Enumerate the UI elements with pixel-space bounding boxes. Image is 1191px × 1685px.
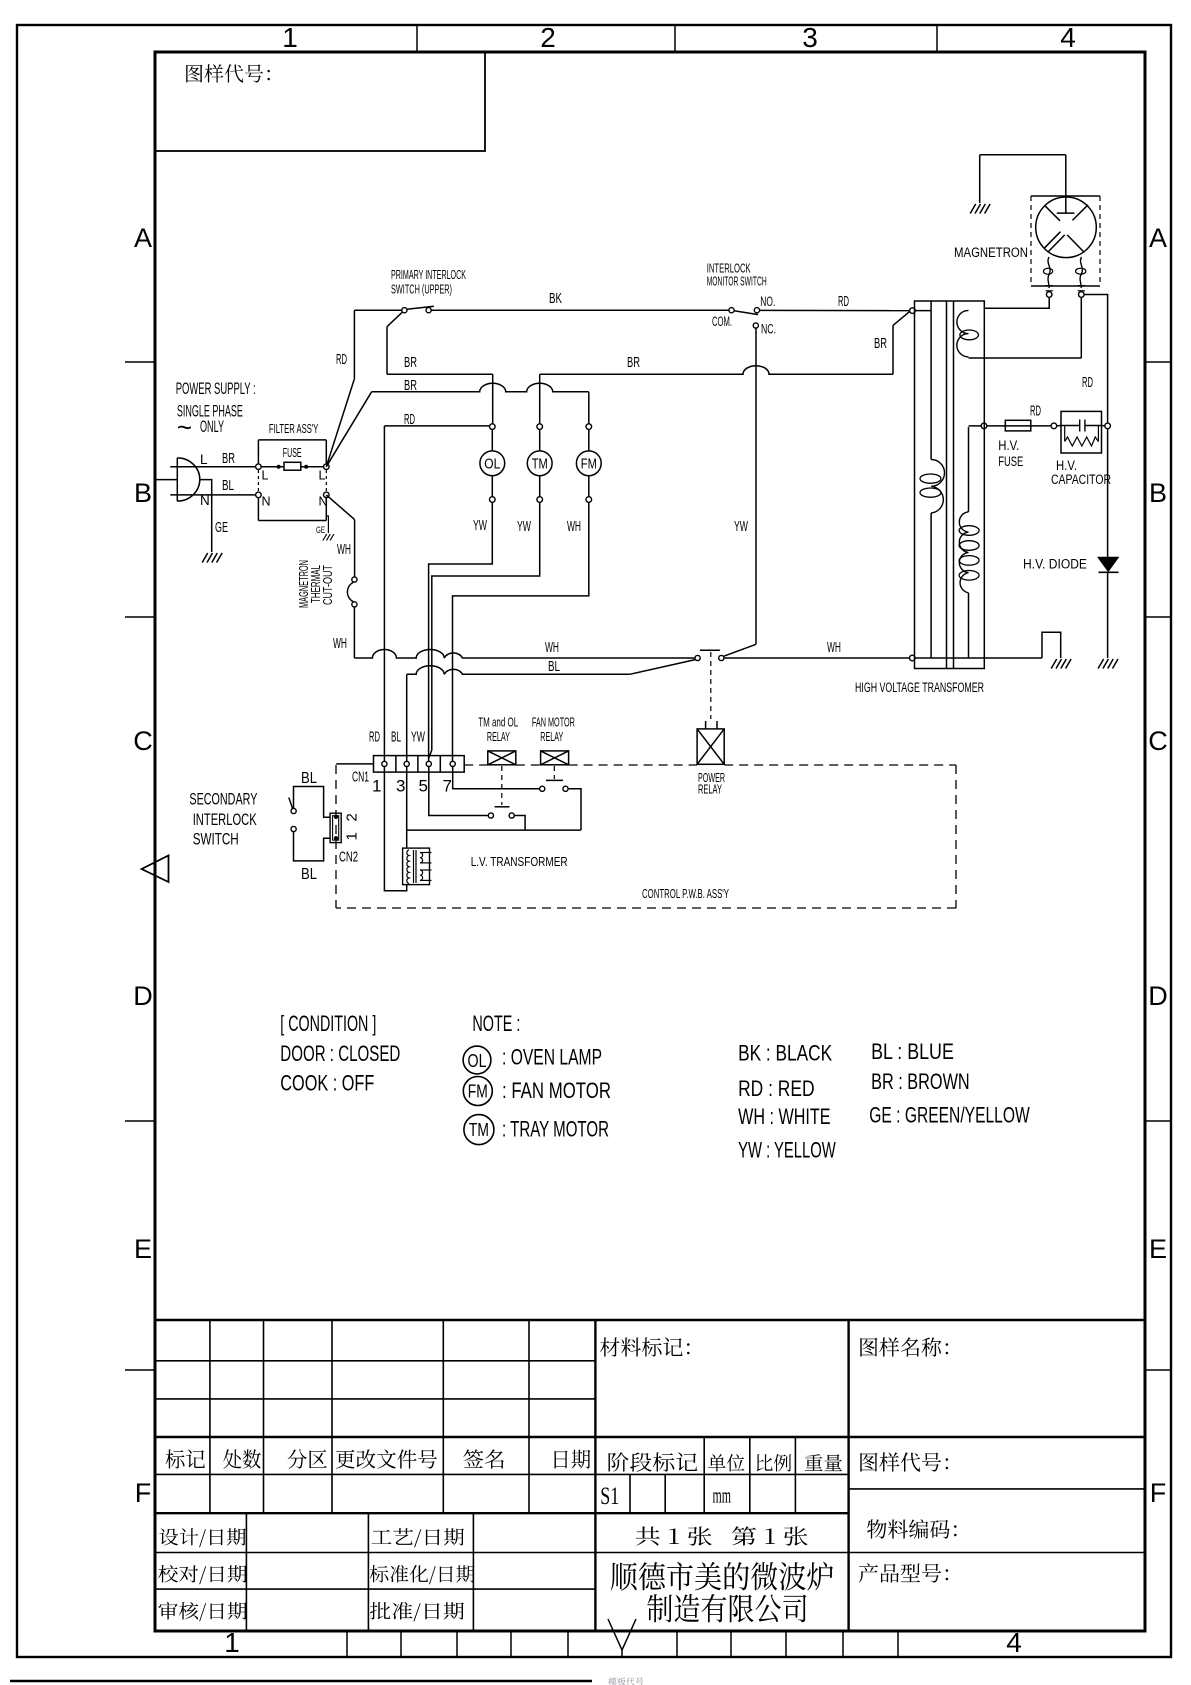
svg-text:MONITOR SWITCH: MONITOR SWITCH	[707, 274, 767, 288]
svg-text:N: N	[262, 495, 271, 509]
svg-text:WH: WH	[545, 640, 559, 656]
svg-text:mm: mm	[713, 1483, 732, 1508]
svg-text:FUSE: FUSE	[998, 454, 1023, 469]
svg-text:RD : RED: RD : RED	[738, 1076, 815, 1101]
svg-text:2: 2	[344, 813, 361, 821]
svg-text:B: B	[1149, 478, 1167, 508]
svg-text:WH: WH	[333, 636, 347, 652]
svg-text:POWER SUPPLY :: POWER SUPPLY :	[176, 379, 256, 398]
svg-text:N: N	[319, 495, 328, 509]
svg-text:SWITCH: SWITCH	[193, 831, 239, 849]
svg-text:HIGH VOLTAGE TRANSFOMER: HIGH VOLTAGE TRANSFOMER	[855, 680, 984, 695]
svg-text:PRIMARY INTERLOCK: PRIMARY INTERLOCK	[391, 268, 466, 282]
svg-text:C: C	[133, 726, 153, 756]
svg-text:7: 7	[443, 777, 452, 796]
svg-text:S1: S1	[600, 1483, 619, 1510]
svg-text:FUSE: FUSE	[283, 445, 302, 460]
svg-text:RD: RD	[404, 412, 415, 428]
svg-text:H.V.: H.V.	[998, 438, 1019, 453]
svg-text:RD: RD	[1082, 375, 1093, 391]
svg-text:3: 3	[802, 22, 818, 53]
svg-text:COOK : OFF: COOK : OFF	[280, 1071, 374, 1096]
svg-text:D: D	[1148, 981, 1168, 1011]
svg-text:MAGNETRON: MAGNETRON	[954, 245, 1028, 260]
svg-text:1: 1	[282, 22, 298, 53]
svg-text:CONTROL P.W.B. ASS'Y: CONTROL P.W.B. ASS'Y	[642, 887, 729, 901]
svg-text:C: C	[1148, 726, 1168, 756]
svg-text:YW: YW	[734, 519, 748, 535]
svg-text:YW: YW	[517, 519, 531, 535]
svg-text:BR: BR	[627, 355, 640, 371]
svg-text:BR: BR	[404, 355, 417, 371]
svg-text:ONLY: ONLY	[200, 417, 224, 436]
svg-text:FAN MOTOR: FAN MOTOR	[532, 715, 575, 729]
svg-text:TM: TM	[532, 456, 548, 472]
svg-text:FILTER ASS'Y: FILTER ASS'Y	[269, 421, 319, 436]
svg-text:BL: BL	[391, 730, 401, 746]
svg-text:L: L	[262, 469, 269, 483]
svg-text:BL: BL	[301, 770, 317, 787]
svg-text:~: ~	[177, 412, 192, 442]
svg-text:WH : WHITE: WH : WHITE	[738, 1104, 830, 1129]
svg-text:L: L	[319, 469, 326, 483]
svg-text:TM: TM	[469, 1120, 489, 1140]
svg-text:OL: OL	[484, 456, 500, 472]
svg-text:OL: OL	[468, 1051, 487, 1071]
svg-text:L.V. TRANSFORMER: L.V. TRANSFORMER	[471, 855, 568, 869]
svg-text:BK : BLACK: BK : BLACK	[738, 1041, 832, 1066]
svg-text:WH: WH	[337, 542, 351, 558]
svg-text:GE : GREEN/YELLOW: GE : GREEN/YELLOW	[869, 1102, 1030, 1127]
svg-text:WH: WH	[567, 519, 581, 535]
svg-text:F: F	[1150, 1478, 1167, 1508]
svg-text:BR: BR	[222, 451, 235, 467]
svg-text:3: 3	[396, 777, 405, 796]
svg-text:D: D	[133, 981, 153, 1011]
svg-text:BL : BLUE: BL : BLUE	[871, 1039, 954, 1064]
svg-text:5: 5	[419, 777, 428, 796]
svg-text:RD: RD	[369, 730, 380, 746]
svg-text:CN1: CN1	[352, 769, 369, 786]
svg-text:: FAN MOTOR: : FAN MOTOR	[502, 1078, 611, 1103]
svg-text:CUT-OUT: CUT-OUT	[321, 565, 335, 605]
svg-text:RD: RD	[1030, 404, 1041, 420]
svg-text:H.V. DIODE: H.V. DIODE	[1023, 557, 1087, 572]
svg-text:BL: BL	[222, 478, 234, 494]
svg-text:NO.: NO.	[760, 294, 775, 309]
svg-text:BR: BR	[874, 336, 887, 352]
svg-text:BR : BROWN: BR : BROWN	[871, 1069, 970, 1094]
svg-text:F: F	[135, 1478, 152, 1508]
svg-text:4: 4	[1060, 22, 1076, 53]
svg-text:H.V.: H.V.	[1056, 458, 1077, 473]
svg-text:BL: BL	[548, 659, 560, 675]
svg-text:INTERLOCK: INTERLOCK	[707, 262, 751, 276]
svg-text:CN2: CN2	[339, 849, 358, 866]
svg-text:YW : YELLOW: YW : YELLOW	[738, 1138, 836, 1163]
svg-text:BK: BK	[549, 291, 562, 307]
svg-text:CAPACITOR: CAPACITOR	[1051, 472, 1111, 487]
svg-text:FM: FM	[468, 1082, 488, 1102]
svg-text:BR: BR	[404, 378, 417, 394]
svg-text:E: E	[1149, 1234, 1167, 1264]
svg-text:SECONDARY: SECONDARY	[189, 791, 257, 809]
svg-text:2: 2	[540, 22, 556, 53]
svg-text:RELAY: RELAY	[487, 730, 510, 744]
svg-text:INTERLOCK: INTERLOCK	[193, 811, 257, 829]
svg-text:: TRAY MOTOR: : TRAY MOTOR	[502, 1117, 609, 1142]
svg-text:E: E	[134, 1234, 152, 1264]
svg-text:NOTE :: NOTE :	[472, 1011, 520, 1036]
svg-text:RELAY: RELAY	[698, 783, 722, 797]
svg-text:GE: GE	[316, 525, 325, 535]
svg-text:N: N	[200, 493, 210, 508]
svg-text:COM.: COM.	[712, 314, 732, 329]
svg-text:YW: YW	[473, 518, 487, 534]
svg-text:4: 4	[1006, 1627, 1022, 1658]
svg-text:[ CONDITION ]: [ CONDITION ]	[280, 1011, 376, 1036]
svg-text:1: 1	[344, 832, 361, 840]
svg-text:: OVEN LAMP: : OVEN LAMP	[502, 1045, 602, 1070]
svg-text:BL: BL	[301, 866, 317, 883]
svg-text:RD: RD	[838, 294, 849, 310]
svg-text:FM: FM	[581, 456, 597, 472]
svg-text:SWITCH (UPPER): SWITCH (UPPER)	[391, 283, 452, 297]
svg-text:NC.: NC.	[761, 321, 776, 336]
svg-text:B: B	[134, 478, 152, 508]
svg-text:WH: WH	[827, 640, 841, 656]
svg-text:A: A	[1149, 223, 1167, 253]
svg-text:RELAY: RELAY	[540, 730, 563, 744]
svg-text:TM and OL: TM and OL	[478, 715, 518, 729]
svg-text:A: A	[134, 223, 152, 253]
svg-text:DOOR : CLOSED: DOOR : CLOSED	[280, 1041, 400, 1066]
svg-text:YW: YW	[411, 730, 425, 746]
svg-text:RD: RD	[336, 352, 347, 368]
svg-text:GE: GE	[215, 520, 228, 536]
svg-text:1: 1	[224, 1627, 240, 1658]
svg-text:1: 1	[372, 777, 381, 796]
svg-text:L: L	[200, 452, 208, 467]
